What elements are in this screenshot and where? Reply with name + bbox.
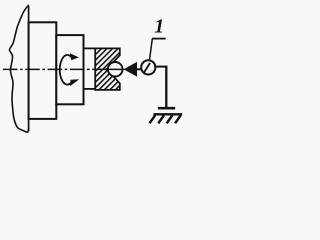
rotation arrow arc xyxy=(60,55,72,85)
stem from indicator to stand xyxy=(155,66,167,68)
stand foot bar xyxy=(158,107,175,110)
workpiece with conical bore (hatched section) xyxy=(95,48,120,90)
dial indicator body xyxy=(141,60,155,74)
ground line xyxy=(153,113,182,115)
ground hatch stroke 1 xyxy=(150,115,156,123)
rotation arrow bottom head xyxy=(71,80,79,86)
centerline (axis, dash-dot) xyxy=(3,68,105,70)
plate left edge bottom hook xyxy=(27,128,28,132)
spindle neck top line xyxy=(84,47,96,49)
headstock housing block xyxy=(29,22,57,119)
headstock plate left edge xyxy=(28,6,30,132)
rotation arrow top head xyxy=(70,54,78,60)
spindle neck bottom line xyxy=(84,88,96,90)
indicator contact tip (triangle) xyxy=(124,63,136,77)
centerline solid segment through ball xyxy=(105,68,124,70)
spindle housing block xyxy=(56,35,83,104)
stand column xyxy=(165,66,167,108)
test ball seated in cone xyxy=(108,62,123,77)
freehand break line of machine body xyxy=(9,6,28,133)
ground hatch stroke 4 xyxy=(175,115,181,123)
label 1 shelf line xyxy=(152,38,166,40)
ground hatch stroke 2 xyxy=(158,115,164,123)
ground hatch stroke 3 xyxy=(167,115,173,123)
indicator needle xyxy=(144,63,150,72)
stem from tip to indicator xyxy=(137,68,143,70)
label 1 leader line xyxy=(150,39,153,61)
svg-text:1: 1 xyxy=(154,16,164,38)
